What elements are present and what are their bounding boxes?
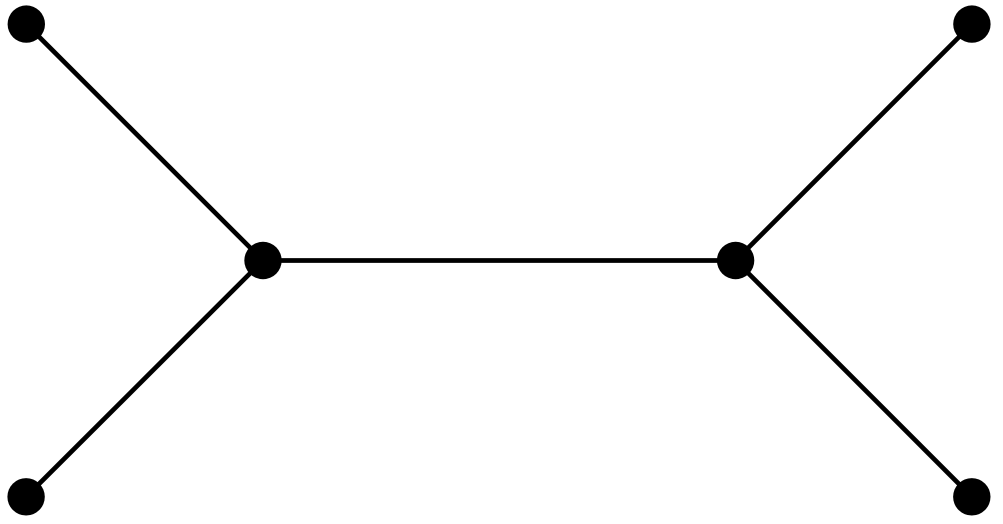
node bottom-left xyxy=(7,478,44,515)
wire edge BL-CL xyxy=(26,261,263,497)
node center-left xyxy=(244,242,281,279)
wire edge CR-BR xyxy=(736,261,972,497)
node bottom-right xyxy=(953,478,990,515)
wire edge TL-CL xyxy=(26,24,263,260)
wire edge CL-CR xyxy=(263,258,736,263)
wire edge CR-TR xyxy=(736,24,972,260)
node center-right xyxy=(717,242,754,279)
node top-left xyxy=(8,5,45,42)
node top-right xyxy=(953,5,990,42)
